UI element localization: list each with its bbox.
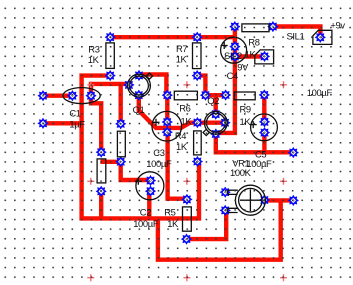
pad R5.2 [182, 234, 192, 244]
wire C5.2 down to emitter rail [262, 133, 266, 153]
svg-text:R8: R8 [248, 36, 259, 47]
pad R1.2 [96, 186, 106, 196]
pad VR1 high [220, 187, 230, 197]
svg-text:Q1: Q1 [133, 104, 145, 115]
pad R9.2 [259, 90, 269, 100]
svg-text:SIL2: SIL2 [224, 50, 242, 61]
node A free pad [38, 118, 48, 128]
pad R8.1 [230, 22, 240, 32]
svg-text:C4: C4 [227, 70, 238, 81]
pad C4 minus [230, 52, 240, 62]
wire C1.2 up to Q1 base [91, 84, 129, 96]
svg-text:1K: 1K [245, 49, 257, 60]
resistor R5 [183, 207, 192, 231]
wire R9.2 down to C5.1 [262, 95, 266, 122]
wire C3.2 down to R5.1 [168, 132, 187, 199]
resistor R6 [174, 91, 197, 100]
pad R9.1 [221, 90, 231, 100]
pad C1.2 [86, 91, 96, 101]
node C free pad [288, 195, 298, 205]
wire R1.2 to ground bus [99, 191, 103, 218]
svg-text:C2: C2 [140, 206, 151, 217]
wire pad B to C1.1 [43, 93, 72, 97]
node D free pad [288, 148, 298, 158]
svg-text:100K: 100K [230, 167, 252, 178]
svg-text:Q2: Q2 [207, 95, 219, 106]
svg-text:R7: R7 [176, 43, 187, 54]
pad R2.2 [116, 157, 126, 167]
pad Q2 collector [220, 118, 230, 128]
svg-text:R5: R5 [164, 206, 175, 217]
svg-text:R6: R6 [179, 103, 190, 114]
pad R8.2 [268, 22, 278, 32]
wire tap down to Q2 base [213, 95, 217, 114]
wire R5.2 to VR1 low pin [187, 210, 227, 239]
capacitor C4 [221, 37, 247, 63]
wire Q2 emitter down and right to pad D [216, 134, 293, 152]
wire Q1 collector to R6.1 [139, 75, 166, 96]
pad VR1 wiper [259, 195, 269, 205]
svg-text:1K: 1K [176, 141, 188, 152]
pad Q1 base [124, 80, 134, 90]
connector SIL2 [255, 50, 274, 64]
wire C2.2 to ground bus [147, 191, 151, 218]
pad R7.2 [192, 71, 202, 81]
wire C1.2 down to R1.1 [91, 96, 101, 153]
svg-text:1K: 1K [88, 54, 100, 65]
pad C3.1 [162, 117, 172, 127]
pad SIL2 [260, 51, 270, 61]
svg-text:C1: C1 [69, 107, 80, 118]
pad C2.2 [146, 186, 156, 196]
svg-text:SIL1: SIL1 [287, 30, 305, 41]
wire R7.2 to R6.2 [197, 76, 205, 96]
pad Q1 emitter [134, 90, 144, 100]
wire R2.2 down to C2 plus [121, 162, 151, 180]
pad R4.2 [192, 157, 202, 167]
capacitor C2 [135, 172, 164, 200]
transistor Q1 [128, 73, 153, 97]
pad R3.2 [105, 71, 115, 81]
wire R2.2 stub row [100, 160, 120, 164]
pad C5.1 [260, 117, 270, 127]
pad C3.2 [162, 127, 172, 137]
pad R7.1 [192, 32, 202, 42]
capacitor C1 [63, 88, 100, 104]
pad R3.1 [105, 32, 115, 42]
pad Q2 base [211, 109, 221, 119]
svg-text:100µF: 100µF [146, 158, 172, 169]
pad C4 plus [230, 42, 240, 52]
wire R8.1 down through C4 to Q2 emitter [217, 27, 235, 133]
node B free pad [38, 91, 48, 101]
wire VR1 wiper to pad C [264, 198, 293, 202]
connector SIL1 [313, 30, 332, 44]
pad C1.1 [67, 91, 77, 101]
pad VR1 low [220, 205, 230, 215]
svg-text:100µF: 100µF [133, 218, 159, 229]
svg-text:R4: R4 [175, 130, 186, 141]
pad C2.1 [146, 176, 156, 186]
resistor R2 [117, 131, 125, 157]
resistor R8 [242, 24, 269, 32]
pad R1.1 [96, 147, 106, 157]
pad SIL1 [315, 32, 325, 42]
pad R6.2 [201, 90, 211, 100]
svg-text:+9v: +9v [330, 19, 345, 30]
wire bottom loop to VR1 wiper [158, 200, 281, 259]
wire R8.2 to SIL1 +9v [273, 27, 321, 38]
wire R6.1 down to C3.1 [165, 95, 169, 122]
resistor R9 [234, 92, 255, 100]
resistor R1 [97, 159, 106, 183]
svg-text:C3: C3 [153, 147, 164, 158]
svg-text:1K: 1K [240, 116, 252, 127]
svg-text:1µF: 1µF [69, 119, 85, 130]
resistor R4 [194, 131, 202, 155]
svg-text:1K: 1K [176, 54, 188, 65]
wire tap down to R2.1 [118, 84, 122, 124]
svg-text:100µF: 100µF [307, 87, 333, 98]
pad R6.1 [162, 90, 172, 100]
capacitor C3 [152, 111, 182, 141]
pad C5.2 [260, 128, 270, 138]
resistor R7 [193, 43, 202, 69]
capacitor C5 [250, 114, 278, 141]
wire ground bus: R3.2 left, down, bottom bar, up to R4.2 [82, 76, 199, 219]
svg-text:1K: 1K [167, 218, 179, 229]
svg-text:R9: R9 [240, 104, 251, 115]
pad R5.1 [182, 194, 192, 204]
pad R2.1 [116, 119, 126, 129]
wire pad A to ground bus [43, 121, 82, 125]
transistor Q2 [203, 111, 227, 135]
wire main top rail R3/R7 to C4 node [110, 35, 235, 39]
trimmer VR1 [227, 185, 265, 215]
wire Q1 emitter diagonal to R4.1 [139, 95, 198, 128]
resistor R3 [106, 43, 114, 69]
svg-text:R3: R3 [88, 43, 99, 54]
wire C4 negative to SIL2 [235, 54, 265, 58]
wire R4.1 to Q2 collector [197, 120, 225, 124]
svg-text:9V: 9V [237, 62, 249, 73]
pad Q2 emitter [211, 129, 221, 139]
pad R4.1 [192, 118, 202, 128]
pad Q1 collector [134, 70, 144, 80]
wire R6.2 to R9.1 [205, 93, 225, 97]
svg-text:1K: 1K [181, 115, 193, 126]
